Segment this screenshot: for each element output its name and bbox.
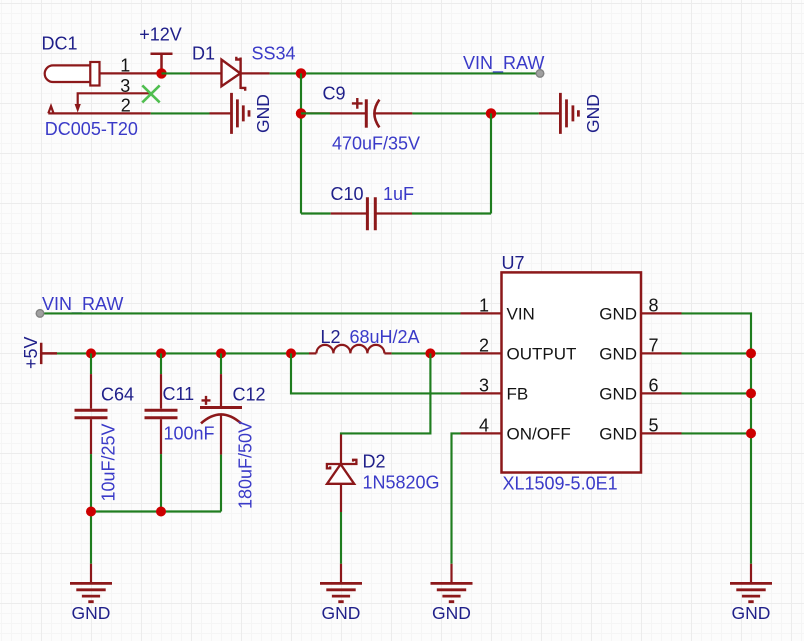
wire FB branch [291,353,461,393]
svg-text:GND: GND [253,94,273,133]
ground (top right) pin [539,112,561,114]
junction bus pin 6 [746,388,756,398]
wire C9 to GND right [412,112,538,114]
net port circle VIN_RAW (top) [536,70,544,78]
junction bus pin 7 [746,348,756,358]
svg-text:1: 1 [479,295,489,315]
svg-text:D2: D2 [363,452,386,472]
svg-text:GND: GND [732,603,771,623]
wire D2 to GND [340,512,342,564]
capacitor C11 bottom pin [160,419,162,454]
ground (bottom ON/OFF) [431,564,473,623]
svg-text:5: 5 [649,415,659,435]
diode D2 schottky cathode bar [327,460,357,469]
svg-text:GND: GND [599,384,637,403]
diode D1 cathode pin [241,72,270,74]
diode D1 schottky cathode bar [236,57,245,91]
svg-text:ON/OFF: ON/OFF [507,424,571,443]
svg-text:1N5820G: 1N5820G [363,473,440,493]
capacitor C64 top pin [90,374,92,409]
svg-text:470uF/35V: 470uF/35V [332,134,420,154]
pin 3 of DC1 [78,93,151,104]
U7 pin 2 stub [461,352,502,354]
U7 pin 1 stub [461,312,502,314]
junction C9 row left [296,108,306,118]
junction bus pin 5 [746,428,756,438]
inductor L2 left pin [309,352,316,354]
svg-text:GND: GND [432,603,471,623]
wire +12V node to D1 anode [162,72,191,74]
U7 pin 6 stub [641,392,682,394]
inductor L2 bumps [316,345,384,354]
wire column C10 right [490,113,492,213]
U7 pin 8 stub [641,312,682,314]
power flag +5V [41,343,57,364]
svg-text:VIN_RAW: VIN_RAW [463,53,544,74]
svg-text:180uF/50V: 180uF/50V [236,421,256,509]
ground (top right) bars [560,93,578,134]
capacitor C10 left pin [331,212,366,214]
inductor L2 right pin [384,352,391,354]
capacitor C12 bottom pin [220,415,222,455]
svg-text:4: 4 [479,415,489,435]
svg-text:3: 3 [479,375,489,395]
junction rail C11 [156,507,166,517]
svg-text:DC1: DC1 [42,34,78,54]
diode D2 triangle [327,464,354,484]
svg-text:OUTPUT: OUTPUT [507,344,577,363]
capacitor C64 plates [75,410,108,418]
diode D1 anode pin [190,72,222,74]
capacitor C11 plates [145,410,178,418]
svg-text:VIN_RAW: VIN_RAW [42,294,123,315]
wire OUTPUT to D2 [341,353,430,434]
wire ground rail [91,512,221,564]
svg-text:6: 6 [649,375,659,395]
junction OUTPUT / D2 branch [425,348,435,358]
svg-text:GND: GND [583,94,603,133]
ground (top middle) bars [232,93,250,134]
junction C64 top [86,348,96,358]
wire C64 bottom [90,454,92,511]
capacitor C9 left pin [301,112,365,114]
wire column C9 left [300,73,302,213]
svg-text:C10: C10 [331,184,364,204]
wire L2 to U7 pin2 [392,352,461,354]
ground (bottom left) [70,564,112,623]
junction rail C64 [86,507,96,517]
svg-text:GND: GND [322,603,361,623]
svg-text:100nF: 100nF [164,424,215,444]
svg-text:GND: GND [599,344,637,363]
diode D2 cathode pin [340,435,342,465]
svg-text:U7: U7 [502,253,525,273]
junction L2 left / FB branch [286,348,296,358]
diode D2 anode pin [340,484,342,512]
wire to C10 left [301,212,331,214]
wire +5V to C11 [160,353,162,374]
junction VIN_RAW / C9 column [296,68,306,78]
pin 3 arrowhead [75,104,81,113]
wire C11 bottom [160,454,162,511]
U7 pin 4 stub [461,432,502,434]
wire D1 to VIN_RAW port [270,72,537,74]
svg-text:D1: D1 [192,44,215,64]
net port circle VIN_RAW (bottom) [36,310,44,318]
svg-text:+12V: +12V [139,25,182,45]
wire C10 right [412,212,491,214]
capacitor C64 bottom pin [90,419,92,454]
connector DC1 barrel jack body [45,65,91,82]
U7 pin 3 stub [461,392,502,394]
wire VIN_RAW to U7 pin1 [44,312,460,314]
svg-text:+5V: +5V [21,336,41,369]
capacitor C11 top pin [160,374,162,409]
svg-text:2: 2 [479,335,489,355]
wire ON/OFF to GND [452,433,461,563]
wire to C9 left pin [301,112,330,114]
svg-text:FB: FB [507,384,529,403]
wire +5V to C64 [90,353,92,374]
junction C12 top [216,348,226,358]
svg-text:C64: C64 [101,384,134,404]
ground (bottom D2) [320,564,362,623]
capacitor C9 curved plate [374,100,379,128]
svg-text:8: 8 [649,295,659,315]
junction at +12V node [156,68,166,78]
pin 1 of DC1 [100,72,162,74]
capacitor C12 plus sign [202,396,211,405]
capacitor C12 straight plate [200,406,242,409]
wire pin 7 to GND bus [682,352,752,354]
svg-text:DC005-T20: DC005-T20 [45,119,138,139]
capacitor C12 curved plate [201,414,241,423]
svg-text:3: 3 [120,76,130,96]
IC U7 box [502,272,642,472]
wire pin 8 to GND bus [682,313,752,563]
svg-text:L2: L2 [321,327,341,347]
capacitor C10 plates [367,197,375,230]
power flag +12V [151,54,173,74]
junction C9 right / C10 column [486,108,496,118]
svg-text:68uH/2A: 68uH/2A [350,327,420,347]
svg-text:SS34: SS34 [252,44,296,64]
ground (bottom right) [730,564,772,623]
capacitor C9 plus sign [352,98,363,109]
svg-text:10uF/25V: 10uF/25V [99,423,119,501]
capacitor C9 straight plate [365,99,368,127]
U7 pin 5 stub [641,432,682,434]
capacitor C12 top pin [220,374,222,406]
U7 pin 7 stub [641,352,682,354]
wire +5V rail [57,352,309,354]
svg-text:1uF: 1uF [383,184,414,204]
connector DC1 barrel jack ring [90,62,99,86]
wire DC1 pin2 to GND [151,112,210,114]
wire +5V to C12 [220,353,222,374]
svg-text:C11: C11 [163,384,195,404]
svg-text:XL1509-5.0E1: XL1509-5.0E1 [503,473,618,493]
capacitor C10 right pin [377,212,413,214]
junction C11 top [156,348,166,358]
svg-text:GND: GND [72,603,111,623]
svg-text:C12: C12 [233,384,266,404]
svg-text:2: 2 [121,96,131,116]
ground (top middle) pin [210,112,232,114]
svg-text:VIN: VIN [507,304,535,323]
pin 2 of DC1 with sleeve notch [48,106,150,113]
diode D1 triangle [222,60,241,87]
capacitor C9 right pin [375,112,413,114]
wire pin 6 to GND bus [682,392,752,394]
svg-text:7: 7 [649,335,659,355]
svg-text:GND: GND [599,424,637,443]
svg-text:C9: C9 [323,83,346,103]
svg-text:GND: GND [599,304,637,323]
wire pin 5 to GND bus [682,432,752,434]
wire C12 bottom [220,455,222,512]
svg-text:1: 1 [120,56,130,76]
no-connect flag X [142,85,159,102]
